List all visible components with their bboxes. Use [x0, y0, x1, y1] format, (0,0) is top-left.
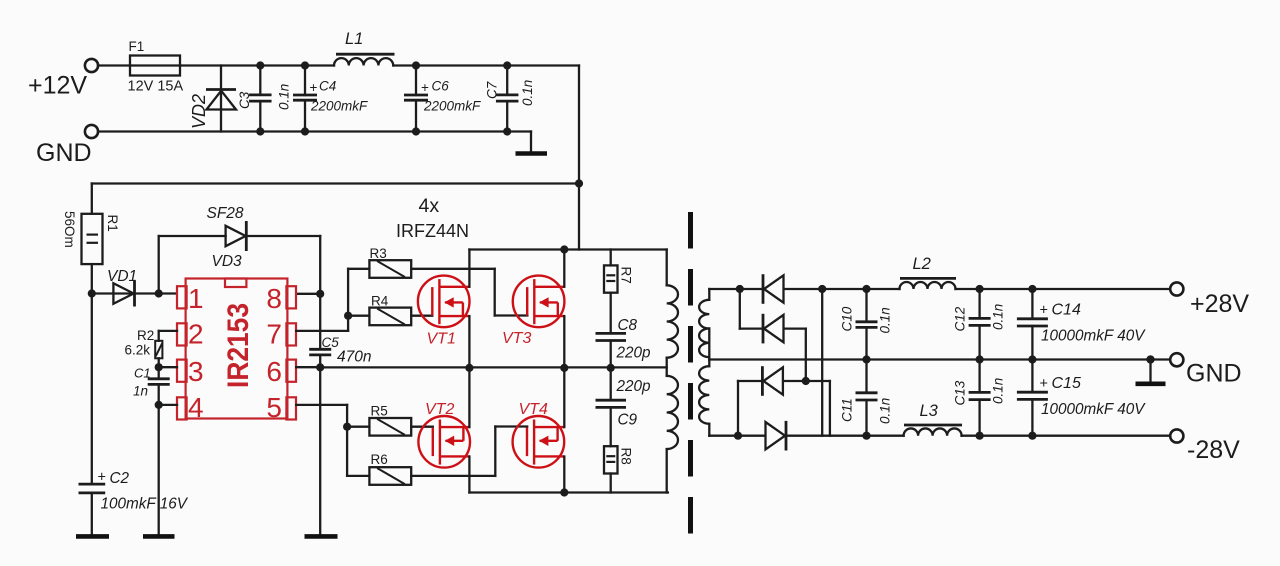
node R1/VD1/C2 junction	[88, 289, 96, 297]
wire R2 to pin3	[155, 358, 163, 371]
wire pin 3	[159, 366, 177, 368]
svg-text:+12V: +12V	[28, 72, 87, 100]
resistor R6	[369, 452, 411, 485]
resistor R2	[125, 328, 163, 358]
wire VT3 drain	[563, 250, 565, 287]
transistor VT4	[513, 401, 565, 468]
pin 1	[188, 283, 204, 314]
transformer core	[688, 212, 693, 534]
wire SF28 right	[246, 236, 320, 294]
pin 6	[266, 356, 282, 387]
wire -28V rail	[709, 432, 1170, 440]
svg-text:C2: C2	[110, 470, 130, 487]
resistor R8	[604, 446, 634, 492]
wire pin 8	[296, 293, 320, 295]
svg-text:IR2153: IR2153	[222, 303, 255, 388]
wire midpoint rail	[320, 364, 667, 372]
diode VD2	[189, 66, 236, 132]
diode D2	[763, 314, 784, 344]
svg-text:R5: R5	[371, 404, 388, 419]
ground output	[1136, 355, 1166, 383]
capacitor C2	[79, 294, 189, 537]
capacitor C11	[840, 360, 893, 436]
wire VT1 drain	[468, 250, 470, 287]
svg-text:C9: C9	[618, 412, 638, 429]
resistor R3	[369, 246, 411, 278]
svg-text:VT1: VT1	[427, 331, 456, 348]
wire +28V rail	[709, 285, 1170, 293]
wire pin 7	[296, 269, 348, 331]
wire D1 branch down	[740, 289, 763, 329]
wire VT2 source	[468, 457, 470, 493]
capacitor C8	[596, 293, 652, 368]
svg-text:VD3: VD3	[212, 253, 243, 270]
wire to R3	[348, 268, 369, 270]
node GND output terminal	[1170, 353, 1241, 387]
pin 2	[188, 319, 204, 350]
wire R4 to VT1 gate	[411, 315, 432, 317]
ground COM	[305, 534, 338, 539]
svg-text:+28V: +28V	[1190, 290, 1249, 318]
transistor VT3	[502, 276, 564, 347]
svg-text:4: 4	[188, 392, 204, 423]
wire pin 4	[159, 404, 177, 406]
svg-text:R6: R6	[371, 452, 388, 467]
svg-text:VT4: VT4	[519, 401, 548, 418]
ground input	[516, 132, 548, 154]
svg-text:0.1n: 0.1n	[991, 304, 1006, 330]
svg-text:4x: 4x	[419, 195, 440, 217]
svg-text:220p: 220p	[616, 378, 652, 395]
svg-text:C8: C8	[618, 317, 638, 334]
capacitor C9	[596, 367, 652, 446]
wire COM to ground	[319, 367, 321, 536]
node pin4 junction	[155, 401, 163, 409]
svg-text:R3: R3	[370, 246, 387, 261]
wire +12V feed down	[575, 66, 583, 250]
svg-text:C4: C4	[319, 79, 336, 94]
wire GND rail	[709, 355, 1170, 363]
node R4 branch	[344, 312, 352, 320]
svg-text:R4: R4	[371, 294, 389, 309]
svg-text:R8: R8	[619, 448, 634, 465]
svg-text:R2: R2	[137, 328, 154, 343]
svg-text:56Om: 56Om	[62, 211, 77, 248]
svg-text:C13: C13	[953, 380, 968, 405]
svg-text:2: 2	[188, 319, 204, 350]
svg-text:C7: C7	[485, 81, 500, 99]
svg-text:C1: C1	[134, 366, 151, 381]
wire input ground rail	[98, 130, 531, 132]
svg-text:+: +	[1040, 376, 1048, 392]
wire to R6	[347, 475, 369, 477]
node -28V terminal	[1170, 429, 1240, 464]
inductor L1	[334, 30, 395, 66]
svg-text:C11: C11	[840, 398, 855, 422]
svg-text:12V 15A: 12V 15A	[128, 79, 184, 95]
svg-text:7: 7	[266, 319, 282, 350]
capacitor C4	[293, 61, 368, 135]
wire to R5	[347, 426, 369, 428]
wire 12V to R1 and bridge	[92, 182, 579, 184]
transistor VT1	[418, 276, 470, 348]
svg-text:R1: R1	[105, 215, 120, 232]
svg-text:R7: R7	[619, 267, 634, 284]
svg-text:L2: L2	[913, 255, 931, 273]
svg-text:6.2k: 6.2k	[125, 343, 151, 358]
svg-text:VD1: VD1	[107, 268, 137, 285]
capacitor C6	[404, 61, 481, 135]
svg-text:470n: 470n	[337, 349, 371, 366]
svg-text:GND: GND	[36, 139, 92, 167]
wire SF28 branch up	[158, 236, 160, 294]
svg-text:C12: C12	[953, 306, 968, 331]
node VD1/SF28 junction	[155, 289, 163, 297]
wire VT2 drain	[468, 368, 470, 428]
diode D4	[766, 421, 787, 451]
svg-text:+: +	[1040, 303, 1048, 319]
wire source rail	[469, 488, 668, 496]
svg-text:10000mkF 40V: 10000mkF 40V	[1041, 401, 1146, 418]
svg-text:VT3: VT3	[502, 330, 531, 347]
svg-text:GND: GND	[1186, 360, 1242, 388]
wire VT4 drain	[563, 368, 565, 428]
capacitor C1	[133, 366, 170, 405]
wire pin4 to ground	[158, 405, 160, 536]
wire VT1 source	[468, 316, 470, 367]
pin 3	[188, 356, 204, 387]
pin 5	[266, 392, 282, 423]
wire D3 left branch	[738, 381, 762, 436]
wire D3 out	[783, 381, 830, 436]
svg-text:2200mkF: 2200mkF	[423, 98, 481, 113]
capacitor C10	[840, 289, 893, 360]
wire top-bottom tie	[821, 289, 823, 436]
svg-text:0.1n: 0.1n	[277, 84, 292, 110]
svg-text:SF28: SF28	[207, 205, 244, 222]
svg-text:+: +	[310, 80, 318, 95]
node pin6/COM junction	[316, 363, 324, 371]
inductor L3	[904, 402, 962, 436]
svg-text:+: +	[421, 80, 429, 95]
capacitor C12	[953, 289, 1006, 360]
svg-text:-28V: -28V	[1187, 436, 1240, 464]
svg-text:0.1n: 0.1n	[520, 80, 535, 106]
capacitor C14	[1017, 289, 1146, 360]
IR2153 label	[222, 303, 255, 388]
wire pin 2	[159, 331, 177, 341]
svg-text:+: +	[98, 470, 106, 486]
wire VT4 source	[563, 457, 565, 493]
svg-text:C3: C3	[237, 91, 252, 109]
svg-text:0.1n: 0.1n	[991, 378, 1006, 404]
op-amp U1 IR2153 body	[177, 279, 296, 420]
svg-text:L1: L1	[345, 30, 363, 48]
diode D3	[762, 366, 783, 396]
resistor R7	[604, 250, 634, 293]
node GND input terminal	[36, 125, 98, 167]
svg-text:10000mkF 40V: 10000mkF 40V	[1041, 327, 1146, 344]
svg-text:2200mkF: 2200mkF	[310, 98, 368, 113]
transistor VT2	[418, 401, 470, 468]
ground C1	[143, 534, 175, 539]
capacitor C15	[1017, 360, 1146, 436]
svg-text:0.1n: 0.1n	[878, 307, 893, 333]
svg-text:VT2: VT2	[425, 401, 454, 418]
svg-text:F1: F1	[129, 39, 145, 54]
wire pin 6	[296, 366, 320, 368]
fuse F1	[128, 39, 184, 95]
svg-text:C6: C6	[432, 79, 450, 94]
node R5 branch	[343, 423, 351, 431]
svg-text:C15: C15	[1052, 375, 1081, 392]
wire R5 to VT2 gate	[411, 426, 433, 428]
wire pin 5	[296, 405, 347, 476]
pin 7	[266, 319, 282, 350]
svg-text:3: 3	[188, 356, 204, 387]
svg-text:100mkF 16V: 100mkF 16V	[101, 496, 189, 513]
svg-text:1: 1	[188, 283, 204, 314]
transformer T1 secondary	[699, 289, 709, 436]
node +28V terminal	[1170, 282, 1249, 318]
wire +12V to fuse	[98, 64, 130, 66]
svg-text:C10: C10	[840, 306, 855, 331]
diode D1	[763, 274, 784, 304]
wire fuse to L1	[180, 64, 334, 66]
wire D2 out	[784, 329, 806, 381]
svg-text:5: 5	[266, 392, 282, 423]
resistor R5	[369, 404, 411, 436]
capacitor C3	[237, 61, 292, 135]
wire drain rail	[469, 245, 666, 253]
svg-text:0.1n: 0.1n	[878, 398, 893, 424]
pin 4	[188, 392, 204, 423]
capacitor C13	[953, 360, 1006, 436]
capacitor C5	[309, 294, 371, 367]
node D2/D3 junction	[802, 377, 810, 385]
node +12V input terminal	[28, 59, 98, 100]
svg-text:IRFZ44N: IRFZ44N	[396, 221, 469, 241]
resistor R4	[369, 294, 411, 326]
4x IRFZ44N label	[396, 195, 469, 241]
svg-text:VD2: VD2	[189, 94, 209, 129]
wire SF28 left	[159, 235, 226, 237]
svg-text:C14: C14	[1052, 302, 1081, 319]
wire R6 to VT4 gate	[411, 427, 527, 476]
node pin8 junction	[316, 290, 324, 298]
wire to R4	[348, 315, 369, 317]
svg-text:1n: 1n	[133, 384, 148, 399]
capacitor C7	[485, 61, 536, 135]
wire R3 to VT3 gate	[411, 269, 527, 316]
inductor L2	[900, 255, 957, 289]
wire VT3 source	[563, 316, 565, 367]
svg-text:8: 8	[266, 283, 282, 314]
svg-text:L3: L3	[920, 402, 939, 420]
ground C2	[76, 534, 109, 539]
pin 8	[266, 283, 282, 314]
diode VD3 SF28	[207, 205, 247, 270]
resistor R1	[62, 184, 120, 294]
diode VD1	[92, 268, 177, 307]
svg-text:220p: 220p	[616, 345, 652, 362]
transformer T1 primary	[667, 250, 678, 493]
svg-text:6: 6	[266, 356, 282, 387]
wire L1 to corner	[394, 64, 580, 66]
